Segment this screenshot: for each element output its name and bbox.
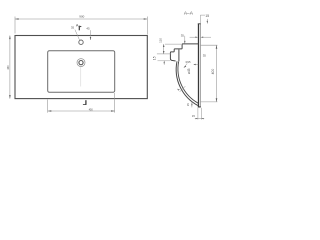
- tap hole position line: [184, 36, 186, 44]
- svg-text:110: 110: [158, 38, 162, 43]
- deck + front lip profile: [170, 44, 198, 61]
- back wall (cut, double line): [197, 24, 199, 108]
- inner lip vertical: [178, 50, 180, 62]
- svg-text:R15: R15: [186, 60, 191, 64]
- svg-text:A: A: [76, 24, 79, 28]
- svg-text:45: 45: [86, 27, 90, 31]
- section mark A (bottom): [85, 100, 87, 105]
- svg-text:15: 15: [186, 103, 190, 106]
- centerline below drain: [80, 67, 82, 87]
- svg-text:15: 15: [192, 114, 195, 118]
- drain inner circle: [79, 61, 83, 65]
- bottom dimension 450: [48, 93, 115, 113]
- drain outer circle: [77, 59, 85, 67]
- bowl inner curve: [178, 61, 198, 103]
- bottom dim 15 (wall): [195, 108, 204, 120]
- shell thickness tick on curve: [180, 86, 186, 92]
- svg-text:35: 35: [71, 26, 75, 30]
- bowl outer curve: [176, 61, 198, 105]
- bowl inner dim arrow: [194, 64, 198, 66]
- right dim 400: [201, 45, 218, 102]
- top leader 15: [200, 15, 205, 23]
- R leader: [184, 63, 187, 67]
- wall thickness dim segments/arrows: [190, 36, 196, 38]
- inner rect (bowl): [48, 51, 115, 92]
- svg-text:⌀45: ⌀45: [187, 68, 191, 74]
- svg-text:15: 15: [205, 14, 209, 18]
- svg-text:35: 35: [181, 34, 185, 38]
- faucet leader + text 35: [75, 30, 80, 40]
- faucet hole circle: [79, 40, 83, 44]
- svg-text:35: 35: [203, 53, 207, 57]
- top dimension 900: [15, 17, 147, 35]
- svg-text:400: 400: [211, 69, 215, 75]
- left dimension 430: [9, 36, 11, 99]
- svg-text:450: 450: [89, 109, 94, 112]
- svg-text:A–A: A–A: [184, 11, 194, 17]
- svg-text:15: 15: [152, 56, 156, 60]
- outer rect (washbasin outline): [15, 36, 147, 99]
- left dim 110: [157, 44, 181, 54]
- svg-text:900: 900: [79, 15, 84, 19]
- svg-text:430: 430: [7, 65, 10, 70]
